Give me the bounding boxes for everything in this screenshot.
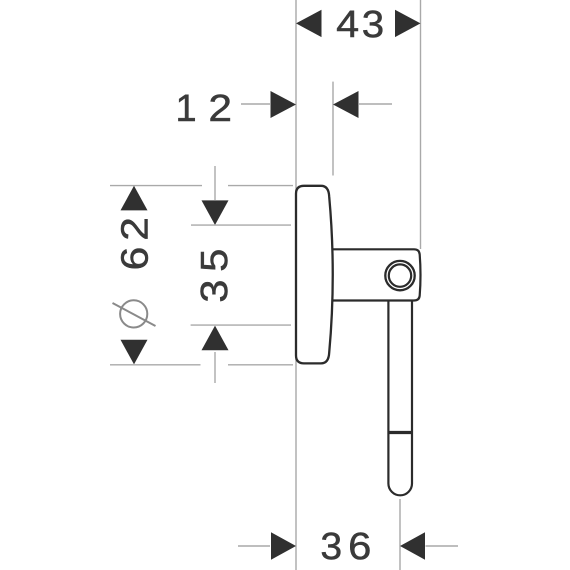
svg-text:2: 2 bbox=[208, 86, 232, 129]
dim 62 bottom line bbox=[110, 364, 201, 366]
roller screw outer circle bbox=[385, 261, 414, 290]
dim 36 line right bbox=[426, 545, 459, 547]
dim 62 arrow down bbox=[121, 340, 148, 365]
dim 35 upper vertical line bbox=[214, 166, 216, 200]
roll holder rod bbox=[388, 295, 412, 495]
svg-text:2: 2 bbox=[113, 217, 156, 241]
dim 43 arrow left bbox=[296, 10, 322, 37]
dim 12 arrow left bbox=[271, 91, 297, 118]
plate bottom extension line bbox=[228, 364, 293, 366]
dim 12 line left bbox=[241, 103, 270, 105]
rod centerline bbox=[399, 499, 401, 570]
rod joint line bbox=[388, 431, 412, 434]
roller screw inner circle bbox=[389, 264, 411, 286]
dim 62 top line bbox=[110, 185, 202, 187]
svg-text:6: 6 bbox=[348, 526, 371, 568]
dim 35 bottom line bbox=[191, 324, 291, 326]
dim 36 arrow left bbox=[271, 532, 296, 559]
svg-text:3: 3 bbox=[320, 525, 342, 567]
dim 35 lower vertical line bbox=[214, 352, 216, 383]
dim 43 arrow right bbox=[395, 10, 421, 37]
dim 35 top line bbox=[191, 224, 291, 226]
svg-text:3: 3 bbox=[362, 4, 384, 46]
plate top extension line bbox=[228, 185, 293, 187]
dim 36 arrow right bbox=[400, 532, 425, 559]
extension line arm end (right of 43) bbox=[420, 0, 422, 249]
holder arm bbox=[326, 249, 421, 300]
dim 12 arrow right bbox=[333, 91, 359, 118]
diameter symbol bbox=[113, 300, 156, 327]
dim 35 arrow up bbox=[202, 326, 229, 351]
wall plate bbox=[296, 186, 333, 364]
svg-text:5: 5 bbox=[194, 249, 236, 272]
dim 35 arrow down bbox=[202, 200, 229, 225]
svg-text:6: 6 bbox=[113, 247, 156, 271]
dim 36 line left bbox=[238, 545, 270, 547]
svg-text:1: 1 bbox=[175, 88, 196, 130]
extension line wall (left of 43 / plate back) bbox=[295, 0, 297, 570]
dim 12 line right bbox=[359, 103, 392, 105]
svg-text:3: 3 bbox=[194, 279, 236, 302]
dim 62 arrow up bbox=[121, 186, 148, 211]
extension line plate front (right of 12) bbox=[332, 82, 334, 176]
svg-text:4: 4 bbox=[336, 3, 359, 45]
